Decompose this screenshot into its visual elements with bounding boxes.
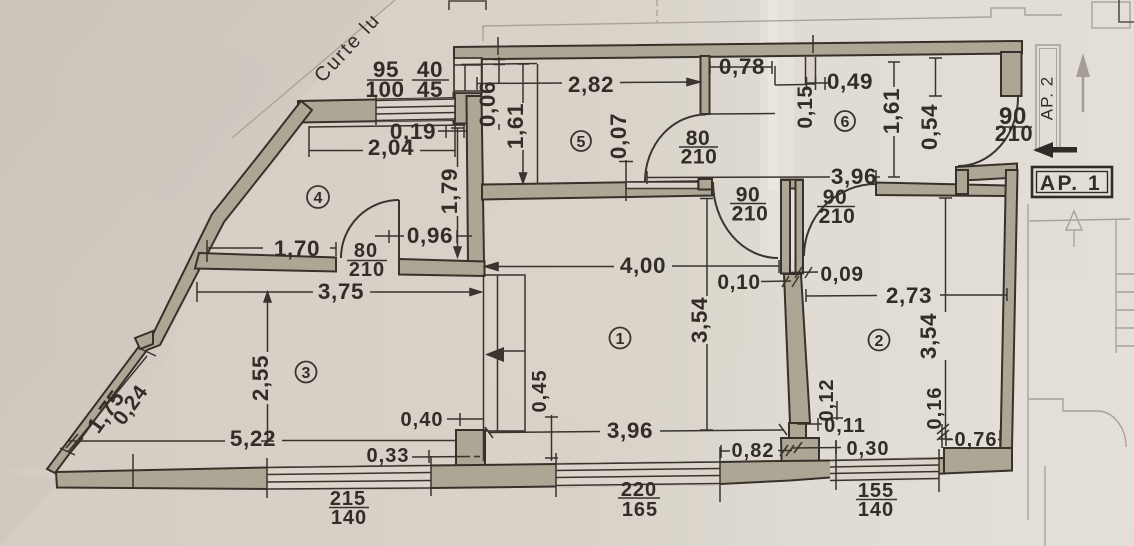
top wall extension ticks [497, 37, 499, 55]
window 220/165 bottom room1 [556, 447, 720, 502]
dim 1,79 line [457, 128, 459, 167]
wall: centre wall bottom pillar [781, 438, 819, 479]
svg-text:210: 210 [732, 203, 769, 226]
dim 0,11 line [797, 423, 822, 425]
faint neighbour door path [1028, 399, 1097, 411]
svg-text:0,15: 0,15 [794, 85, 817, 128]
faint neighbour outline above top wall [483, 8, 1062, 41]
svg-text:4: 4 [314, 190, 323, 207]
dim 2,82 line [477, 82, 562, 85]
svg-text:210: 210 [819, 205, 856, 228]
wall: room5/hall horizontal [482, 181, 712, 200]
dim 3,96 top line [647, 176, 830, 179]
svg-text:1,79: 1,79 [437, 168, 462, 214]
wall: entrance lower jamb block [956, 170, 968, 194]
faint corridor top line [1029, 219, 1130, 221]
flue shaft rooms1|3 [484, 275, 526, 431]
dim 2,73 line [806, 295, 877, 298]
svg-text:0,96: 0,96 [407, 223, 453, 248]
svg-text:140: 140 [858, 499, 894, 521]
rooms5|6 partition lines [482, 59, 806, 114]
svg-text:3,96: 3,96 [607, 418, 653, 443]
wall: room3 top band left of door [195, 253, 336, 272]
svg-text:5,22: 5,22 [230, 426, 276, 451]
dim 2,55 line [267, 292, 269, 352]
svg-text:5: 5 [577, 134, 586, 151]
wall: corner block left of room 5 [454, 93, 482, 124]
AP. 1 stamp box [1032, 167, 1112, 197]
wall: room6 bottom band [956, 164, 1017, 182]
faint dashed shaft line above wall [656, 0, 658, 22]
svg-text:AP. 2: AP. 2 [1037, 76, 1056, 120]
svg-text:3,75: 3,75 [318, 279, 364, 304]
dim 0,49 line [806, 82, 830, 84]
svg-text:3,96: 3,96 [831, 164, 877, 189]
svg-text:0,82: 0,82 [732, 440, 775, 462]
svg-text:1: 1 [616, 331, 625, 348]
wall: centre single wall rooms1|2 [784, 274, 810, 423]
svg-text:0,10: 0,10 [717, 271, 760, 294]
room5 niche step line 0,06 [461, 64, 537, 65]
flue vent triangle [485, 347, 504, 362]
svg-text:210: 210 [349, 259, 385, 281]
vertical photo crease highlight [760, 0, 794, 260]
svg-text:AP. 1: AP. 1 [1040, 172, 1102, 195]
wall: centre double-wall top cap [781, 180, 803, 189]
dim 0,10 ticks [761, 280, 791, 283]
dim 0,19 line [438, 130, 467, 132]
up arrow symbol right of AP2 box [1076, 53, 1090, 77]
door arc room5 80/210 [645, 115, 706, 182]
dim 0,76 line [946, 439, 953, 441]
room5 door threshold [626, 182, 698, 189]
svg-text:2,04: 2,04 [368, 135, 414, 160]
dim 0,78 line [710, 66, 772, 68]
wall: room 4 top (window wall) [298, 98, 455, 123]
tick at diagonal window extension [132, 454, 134, 489]
room 5 circle [571, 131, 591, 151]
dim 0,96 line [375, 235, 404, 237]
room 3 circle [296, 362, 317, 383]
svg-text:1,61: 1,61 [503, 103, 528, 149]
door leaf room4 [398, 200, 400, 258]
svg-text:0,16: 0,16 [924, 387, 946, 430]
dim 0,12 line [836, 401, 838, 420]
wall: bottom exterior band [56, 458, 944, 489]
svg-text:0,12: 0,12 [816, 379, 838, 422]
faint neighbour wall bottom right [1044, 466, 1046, 546]
dim 3,54 room2 line [945, 198, 947, 312]
svg-text:1,61: 1,61 [879, 88, 904, 134]
faint lot boundary line along Curte [232, 0, 395, 138]
niche window 0,49/0,15 room6 top [806, 57, 816, 84]
room 1 circle [610, 328, 631, 349]
wall: centre double-wall right strip [796, 180, 804, 274]
svg-text:2,73: 2,73 [886, 283, 932, 308]
door arc room4 80/210 [341, 200, 399, 258]
dim 3,96 bottom line [488, 432, 600, 433]
faint corridor vertical right of AP1 [1027, 204, 1029, 520]
svg-text:2,82: 2,82 [568, 72, 614, 97]
wall: room2 top [876, 183, 1006, 197]
dim 1,61 room5 line [537, 64, 539, 184]
svg-text:0,09: 0,09 [820, 263, 863, 286]
dim 3,75 line [197, 291, 313, 293]
svg-text:3,54: 3,54 [687, 297, 712, 343]
wall: pier at room5 door [699, 179, 713, 190]
wall: room3 top band right of door [399, 259, 485, 276]
dim 3,54 room1 line [706, 198, 708, 296]
wall: rooms3|1 bottom pillar [456, 430, 485, 472]
small dark rect above top-left wall [449, 1, 486, 10]
room4 interior top face line [309, 125, 465, 127]
room 4 circle [307, 186, 329, 208]
top-left outside-lot shading [0, 0, 390, 470]
window 155/140 bottom room2 [830, 440, 939, 492]
room 6 circle [835, 111, 855, 131]
door arc room2 lobby 90/210 [804, 184, 876, 256]
dim 1,79 bottom arrow [454, 247, 461, 257]
dim 0,06 line [498, 57, 500, 84]
svg-text:0,07: 0,07 [606, 113, 631, 159]
faint neighbour door arc [1097, 411, 1126, 447]
dim 0,16 line [941, 424, 943, 448]
svg-text:3,54: 3,54 [916, 313, 941, 359]
dim 1,61 room6 line [893, 62, 895, 87]
svg-text:2: 2 [875, 333, 884, 350]
dim 0,07 line [625, 160, 627, 201]
door arc entrance 90/210 [958, 97, 1018, 166]
svg-text:0,33: 0,33 [367, 445, 410, 467]
dim 5,22 line [69, 440, 225, 442]
svg-text:210: 210 [681, 146, 718, 169]
wall: diagonal exterior [47, 101, 312, 473]
dim 0,33 line [412, 456, 470, 459]
wall: entrance top-right block [1001, 52, 1022, 96]
svg-text:210: 210 [995, 121, 1034, 146]
window 215/140 bottom room3 [267, 456, 431, 498]
wall: rooms5|6 partition stub [701, 56, 710, 114]
svg-text:1,70: 1,70 [274, 236, 320, 261]
wall: bottom-right corner chunk [944, 448, 1012, 474]
dim 0,82 line [721, 450, 730, 452]
svg-text:0,06: 0,06 [475, 81, 500, 127]
window 95/100 in room4 top wall [376, 94, 455, 125]
svg-text:0,45: 0,45 [529, 370, 551, 413]
svg-text:0,78: 0,78 [719, 54, 765, 79]
dim 0,45 line [551, 367, 553, 369]
dim 4,00 line [485, 266, 614, 268]
svg-text:0,40: 0,40 [401, 409, 444, 431]
dim 1,70 line [207, 247, 263, 249]
svg-text:0,30: 0,30 [847, 438, 890, 460]
faint stair block top-right [1092, 2, 1130, 28]
svg-text:0,76: 0,76 [955, 429, 998, 451]
svg-text:165: 165 [622, 499, 658, 521]
bottom-left paper corner shading [0, 470, 60, 546]
wall: top exterior [454, 41, 1022, 60]
dim 0,30 line [792, 447, 841, 450]
dim 0,40 line [447, 418, 483, 420]
wall: hall vertical (room4 right) [467, 96, 485, 262]
entrance arrow pointing left [1033, 142, 1053, 158]
svg-text:0,49: 0,49 [827, 69, 873, 94]
svg-text:4,00: 4,00 [620, 253, 666, 278]
dim 0,54 line [935, 58, 937, 96]
dim 2,04 line [309, 150, 363, 152]
faint north triangle below AP1 [1066, 211, 1082, 247]
svg-text:6: 6 [841, 114, 850, 131]
svg-text:2,55: 2,55 [248, 355, 273, 401]
wall: notch tooth on diagonal [135, 331, 153, 349]
paper mottling [60, 40, 300, 200]
faint stair treads [1116, 274, 1134, 346]
wall: centre double-wall left strip [781, 180, 790, 274]
svg-text:3: 3 [302, 365, 311, 382]
dim 1,75 line along diagonal [68, 356, 147, 452]
svg-text:0,54: 0,54 [917, 104, 942, 150]
faint stair rail [1115, 220, 1117, 353]
wall: right exterior [1001, 170, 1018, 448]
AP. 2 faint box [1036, 45, 1060, 151]
window 40/45 two-pane box below top wall [454, 58, 482, 93]
dim 0,09 ticks [791, 271, 818, 274]
room 2 circle [869, 330, 890, 351]
door arc hall left 90/210 [713, 182, 778, 258]
wall: centre wall step chunk [789, 423, 806, 438]
rooms3|1 wall line below flue [483, 431, 485, 461]
svg-text:140: 140 [331, 507, 367, 529]
